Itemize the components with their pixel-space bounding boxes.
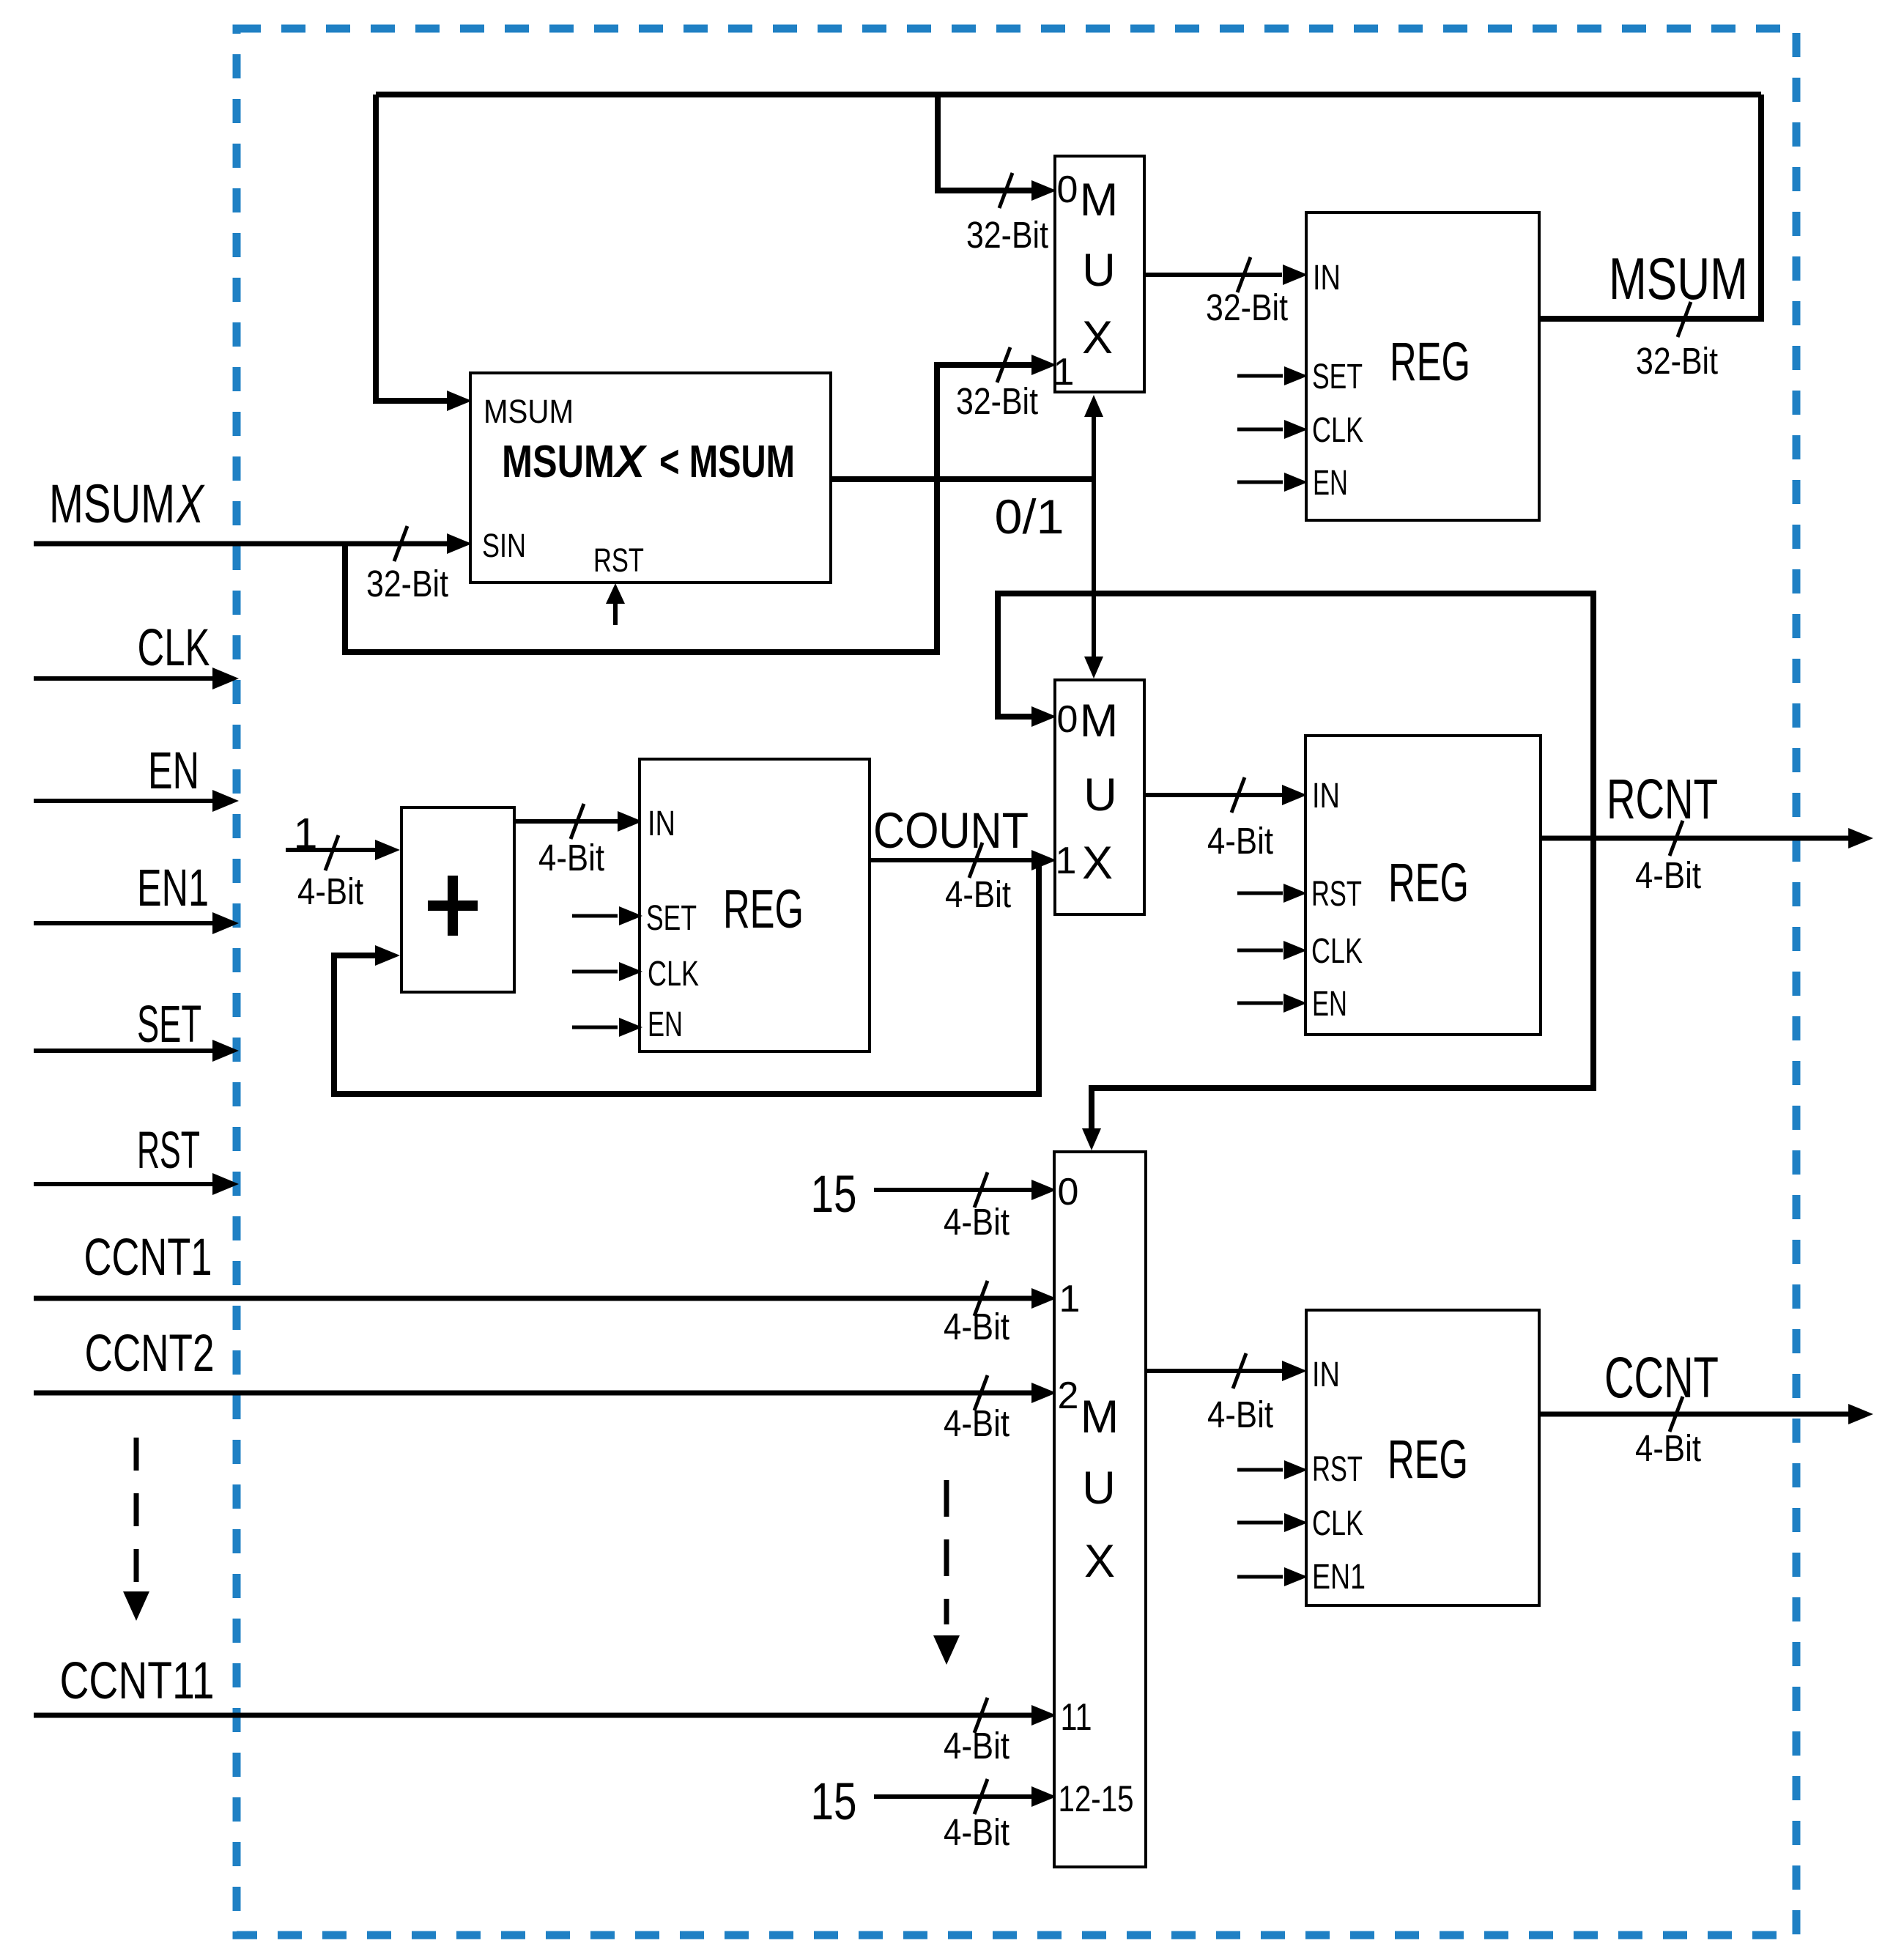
wire: CCNT11 to MUX3 — [34, 1705, 1056, 1726]
wire: REG1 SET port arrow — [1237, 366, 1308, 385]
svg-text:SET: SET — [646, 899, 697, 938]
svg-text:32-Bit: 32-Bit — [966, 214, 1048, 256]
wire: REG1 output MSUM to top feedback — [1539, 95, 1761, 319]
wire: CLK input arrow — [34, 667, 239, 689]
svg-text:SET: SET — [1312, 358, 1363, 396]
svg-text:X: X — [1084, 1536, 1115, 1587]
bus slash: 4-Bit on constant 1 — [325, 835, 338, 870]
wire: REG2 CLK port arrow — [572, 962, 642, 981]
label: constant 1 (adder increment) — [294, 810, 318, 858]
bus slash: 32-Bit on MUX1 input 1 — [997, 347, 1010, 382]
svg-text:U: U — [1083, 769, 1117, 821]
label: 32-Bit (MSUMX) — [366, 563, 448, 604]
svg-text:< MSUM: < MSUM — [659, 437, 795, 487]
svg-text:4-Bit: 4-Bit — [297, 870, 363, 912]
comparator U1: MSUMX &lt; MSUM — [470, 373, 831, 583]
label: output MSUM — [1609, 246, 1748, 312]
wire: comparator output to select node — [831, 476, 1094, 482]
label: 32-Bit (MUX1 input 0) — [966, 214, 1048, 256]
bus slash: 4-Bit on MUX3 output — [1233, 1353, 1246, 1388]
svg-text:EN1: EN1 — [1312, 1558, 1366, 1597]
wire: CCNT2 to MUX3 — [34, 1383, 1056, 1403]
svg-text:CCNT2: CCNT2 — [85, 1325, 215, 1383]
bus slash: 4-Bit on COUNT — [969, 843, 982, 878]
svg-text:1: 1 — [1059, 1278, 1081, 1320]
wire: REG4 EN1 port arrow — [1237, 1567, 1308, 1586]
svg-text:X: X — [1082, 312, 1113, 363]
label: 4-Bit (CCNT) — [1635, 1427, 1701, 1469]
svg-text:15: 15 — [811, 1773, 857, 1831]
bus slash: 4-Bit on CCNT11 — [974, 1698, 988, 1733]
wire: REG1 CLK port arrow — [1237, 420, 1308, 439]
svg-text:4-Bit: 4-Bit — [1207, 820, 1273, 862]
label: input CCNT11 — [60, 1652, 215, 1710]
wire: constant 1 into adder — [286, 840, 400, 860]
svg-text:15: 15 — [811, 1166, 857, 1224]
wire: select down into MUX2 — [1084, 479, 1103, 678]
svg-text:11: 11 — [1061, 1696, 1092, 1739]
svg-text:CLK: CLK — [1312, 1504, 1363, 1543]
svg-text:REG: REG — [1388, 852, 1469, 913]
wire: MUX1 output to REG1 IN — [1144, 265, 1308, 285]
svg-text:32-Bit: 32-Bit — [1206, 286, 1288, 328]
wire: MSUM feedback drop to MUX1 input 0 — [938, 95, 1056, 201]
register REG4 (CCNT register) — [1306, 1310, 1539, 1605]
svg-text:EN: EN — [148, 742, 199, 800]
label: net 0/1 (select) — [995, 489, 1064, 544]
wire: MSUMX input to comparator SIN — [34, 533, 472, 554]
label: 4-Bit (MUX3 output) — [1207, 1394, 1273, 1435]
svg-text:4-Bit: 4-Bit — [1635, 1427, 1701, 1469]
register REG1 (MSUM register) — [1306, 212, 1539, 520]
svg-text:4-Bit: 4-Bit — [944, 1725, 1010, 1767]
svg-text:32-Bit: 32-Bit — [366, 563, 448, 604]
label: 4-Bit (15 bottom) — [944, 1811, 1010, 1853]
svg-text:4-Bit: 4-Bit — [944, 1811, 1010, 1853]
svg-text:COUNT: COUNT — [873, 802, 1029, 859]
wire: REG2 EN port arrow — [572, 1018, 642, 1037]
label: 4-Bit (constant 1) — [297, 870, 363, 912]
svg-text:CCNT1: CCNT1 — [84, 1229, 212, 1287]
svg-text:4-Bit: 4-Bit — [944, 1306, 1010, 1347]
svg-text:0: 0 — [1058, 1171, 1079, 1213]
label: 4-Bit (CCNT2) — [944, 1402, 1010, 1444]
svg-text:1: 1 — [1056, 840, 1077, 882]
svg-text:U: U — [1082, 1462, 1116, 1514]
wire: constant 15 to MUX3 input 0 — [874, 1180, 1056, 1200]
label: 4-Bit (RCNT) — [1635, 854, 1701, 896]
wire: EN input arrow — [34, 790, 239, 812]
mux MUX3 (CCNT select) — [1054, 1152, 1146, 1867]
label: input SET — [137, 996, 201, 1054]
svg-text:1: 1 — [1053, 351, 1075, 393]
svg-text:0/1: 0/1 — [995, 489, 1064, 544]
svg-text:M: M — [1080, 695, 1118, 747]
wire: EN1 input arrow — [34, 912, 239, 934]
svg-text:M: M — [1080, 174, 1118, 226]
mux MUX1 (MSUM select) — [1053, 156, 1144, 393]
bus slash: 4-Bit on 15 (top) — [974, 1172, 988, 1208]
svg-text:IN: IN — [1313, 259, 1341, 297]
svg-text:EN: EN — [648, 1005, 683, 1044]
adder U2 (+) — [401, 807, 514, 992]
wire: select up into MUX1 — [1084, 395, 1103, 479]
label: input CCNT2 — [85, 1325, 215, 1383]
svg-text:4-Bit: 4-Bit — [945, 873, 1011, 915]
svg-text:SET: SET — [137, 996, 201, 1054]
svg-text:CLK: CLK — [1312, 411, 1363, 450]
label: 4-Bit (15 top) — [944, 1201, 1010, 1243]
wire: RCNT feedback to MUX2 input 0 — [998, 593, 1593, 838]
wire: constant 15 to MUX3 input 12-15 — [874, 1786, 1056, 1807]
register REG2 (COUNT register) — [640, 759, 870, 1051]
wire: CCNT output — [1539, 1404, 1873, 1424]
svg-text:4-Bit: 4-Bit — [944, 1201, 1010, 1243]
bus slash: 32-Bit on MUX1 output — [1237, 257, 1251, 292]
svg-text:CLK: CLK — [138, 619, 210, 677]
label: input CLK — [138, 619, 210, 677]
svg-text:4-Bit: 4-Bit — [538, 837, 604, 879]
svg-text:EN1: EN1 — [137, 859, 209, 917]
wire: REG1 EN port arrow — [1237, 473, 1308, 492]
wire: MUX3 output to REG4 IN — [1146, 1361, 1307, 1381]
mux MUX2 (RCNT select) — [1055, 680, 1144, 914]
svg-text:M: M — [1081, 1391, 1119, 1443]
svg-text:MSUM: MSUM — [502, 437, 615, 487]
wire: MSUMX branch to MUX1 input 1 — [345, 355, 1056, 652]
svg-text:2: 2 — [1058, 1375, 1079, 1417]
wire: REG4 CLK port arrow — [1237, 1513, 1308, 1532]
svg-text:MSUM: MSUM — [1609, 246, 1748, 312]
wire: REG4 RST port arrow — [1237, 1460, 1308, 1479]
label: constant 15 (MUX3 input 0) — [811, 1166, 857, 1224]
bus slash: 4-Bit on CCNT — [1670, 1397, 1683, 1432]
svg-text:REG: REG — [1390, 331, 1470, 392]
svg-text:MSUM: MSUM — [49, 473, 175, 534]
svg-text:EN: EN — [1312, 985, 1347, 1024]
svg-text:X: X — [176, 473, 205, 534]
svg-text:SIN: SIN — [482, 527, 526, 564]
wire: MSUM feedback (top horizontal) — [376, 92, 1761, 97]
wire: adder output to REG2 IN — [514, 811, 642, 832]
wire: RCNT output — [1541, 828, 1873, 848]
label: input MSUMX — [49, 473, 205, 534]
svg-text:32-Bit: 32-Bit — [956, 380, 1038, 422]
svg-text:CLK: CLK — [648, 955, 699, 994]
svg-text:X: X — [612, 437, 648, 487]
wire: REG2 SET port arrow — [572, 906, 642, 925]
wire: RST input arrow — [34, 1173, 239, 1195]
wire: RCNT to MUX3 select — [1082, 838, 1593, 1150]
bus slash: 32-Bit on MUX1 input 0 — [999, 173, 1012, 208]
wire: REG3 RST port arrow — [1237, 884, 1307, 903]
label: constant 15 (MUX3 input 12-15) — [811, 1773, 857, 1831]
label: output RCNT — [1607, 768, 1718, 831]
svg-text:0: 0 — [1057, 169, 1078, 211]
wire: REG3 EN port arrow — [1237, 994, 1307, 1013]
wire: RST arrow into comparator bottom — [606, 583, 625, 625]
label: net COUNT — [873, 802, 1029, 859]
label: 4-Bit (CCNT11) — [944, 1725, 1010, 1767]
bus slash: 4-Bit on CCNT2 — [974, 1375, 988, 1410]
wire: COUNT feedback to adder input — [334, 860, 1039, 1094]
svg-text:CCNT11: CCNT11 — [60, 1652, 215, 1710]
wire: MSUM feedback drop to comparator MSUM input — [376, 95, 472, 411]
bus slash: 4-Bit on MUX2 output — [1231, 777, 1245, 813]
svg-text:REG: REG — [723, 879, 804, 939]
bus slash: 4-Bit on 15 (bottom) — [974, 1779, 988, 1814]
wire: SET input arrow — [34, 1040, 239, 1062]
dashed continuation arrow (right, MUX3 inputs 2..11) — [933, 1480, 960, 1665]
svg-text:4-Bit: 4-Bit — [1207, 1394, 1273, 1435]
bus slash: 4-Bit on CCNT1 — [974, 1281, 988, 1316]
label: input EN1 — [137, 859, 209, 917]
svg-text:CCNT: CCNT — [1604, 1345, 1719, 1410]
wire: MUX2 output to REG3 IN — [1144, 785, 1307, 805]
dashed continuation arrow (left, CCNT2..CCNT11) — [123, 1438, 149, 1621]
label: 32-Bit (MSUM output) — [1636, 340, 1718, 382]
svg-text:RST: RST — [137, 1122, 200, 1180]
bus slash: 4-Bit on adder output — [571, 804, 584, 839]
label: 4-Bit (COUNT) — [945, 873, 1011, 915]
bus slash: 32-Bit on MSUMX — [394, 526, 407, 561]
svg-text:12-15: 12-15 — [1059, 1778, 1134, 1819]
label: 4-Bit (adder output) — [538, 837, 604, 879]
svg-text:RST: RST — [593, 541, 644, 579]
label: input RST — [137, 1122, 200, 1180]
svg-text:MSUM: MSUM — [484, 393, 574, 430]
label: output CCNT — [1604, 1345, 1719, 1410]
svg-text:U: U — [1082, 245, 1116, 296]
svg-text:IN: IN — [648, 805, 675, 843]
svg-text:IN: IN — [1312, 1356, 1340, 1394]
label: 4-Bit (CCNT1) — [944, 1306, 1010, 1347]
svg-text:4-Bit: 4-Bit — [944, 1402, 1010, 1444]
label: input EN — [148, 742, 199, 800]
svg-text:CLK: CLK — [1311, 932, 1363, 971]
wire: COUNT output to MUX2 input 1 — [870, 850, 1056, 870]
svg-text:EN: EN — [1313, 464, 1348, 503]
bus slash: 4-Bit on RCNT — [1670, 821, 1683, 856]
svg-text:RST: RST — [1312, 1450, 1363, 1489]
svg-text:X: X — [1082, 837, 1113, 889]
label: 32-Bit (MUX1 output) — [1206, 286, 1288, 328]
wire: REG3 CLK port arrow — [1237, 941, 1307, 960]
svg-text:RCNT: RCNT — [1607, 768, 1718, 831]
register REG3 (RCNT register) — [1305, 736, 1541, 1035]
svg-text:RST: RST — [1311, 875, 1362, 914]
svg-text:0: 0 — [1057, 698, 1078, 741]
svg-text:IN: IN — [1312, 777, 1340, 816]
svg-text:32-Bit: 32-Bit — [1636, 340, 1718, 382]
bus slash: 32-Bit on MSUM output — [1678, 302, 1691, 337]
label: input CCNT1 — [84, 1229, 212, 1287]
label: 32-Bit (MUX1 input 1) — [956, 380, 1038, 422]
wire: CCNT1 to MUX3 — [34, 1288, 1056, 1309]
svg-text:4-Bit: 4-Bit — [1635, 854, 1701, 896]
label: 4-Bit (MUX2 output) — [1207, 820, 1273, 862]
svg-text:REG: REG — [1388, 1429, 1468, 1490]
